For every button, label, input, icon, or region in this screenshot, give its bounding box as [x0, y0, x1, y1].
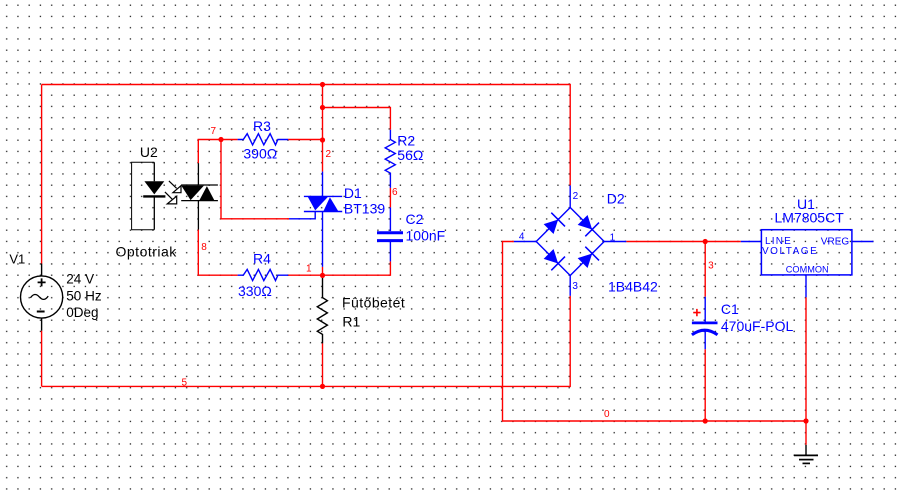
svg-text:BT139: BT139	[344, 200, 385, 216]
svg-text:V1: V1	[9, 251, 25, 266]
svg-text:C1: C1	[721, 301, 739, 317]
wire D1 bottom to node 1	[322, 267, 324, 275]
svg-text:56Ω: 56Ω	[397, 147, 423, 163]
resistor R2	[385, 130, 395, 188]
svg-text:2: 2	[573, 191, 579, 202]
junction net 3 C1	[703, 239, 708, 244]
polarity plus C1	[693, 309, 700, 316]
junction node 5	[320, 384, 325, 389]
svg-text:C2: C2	[406, 211, 424, 227]
capacitor C1	[692, 297, 718, 350]
ground	[794, 445, 818, 464]
svg-text:470uF-POL: 470uF-POL	[721, 318, 794, 334]
svg-text:4: 4	[519, 232, 525, 243]
diode D2 bottom-left	[542, 247, 565, 270]
junction 0 net ground	[803, 418, 808, 423]
wire node 1 to C2	[323, 261, 391, 275]
wire bottom rail node 5	[42, 296, 571, 387]
junction 0 net C1	[703, 418, 708, 423]
wire node 8 U2 to R4	[198, 230, 237, 276]
wire U1 common to ground	[805, 297, 807, 445]
svg-text:1B4B42: 1B4B42	[608, 278, 658, 294]
svg-text:Fûtőbetét: Fûtőbetét	[342, 295, 405, 311]
source V1	[20, 264, 62, 331]
svg-text:LM7805CT: LM7805CT	[775, 209, 845, 225]
diode D2 top-right	[576, 213, 599, 236]
wire node 7 to U2	[198, 140, 237, 164]
wire R2 branch	[323, 108, 391, 130]
junction node 7	[218, 137, 223, 142]
svg-text:VOLTAGE: VOLTAGE	[762, 246, 818, 257]
svg-text:1: 1	[306, 263, 312, 274]
svg-text:U2: U2	[140, 144, 158, 160]
wire left rail lower	[41, 331, 43, 387]
svg-text:D1: D1	[344, 185, 362, 201]
svg-text:3: 3	[572, 281, 578, 292]
svg-text:R3: R3	[253, 118, 271, 134]
svg-text:2: 2	[326, 149, 332, 160]
svg-text:0Deg: 0Deg	[66, 305, 98, 320]
svg-text:8: 8	[201, 242, 207, 253]
junction node 1	[320, 273, 325, 278]
wire R3 right to node 2	[288, 139, 322, 141]
diode D2 bottom-right	[576, 247, 599, 270]
svg-text:COMMON: COMMON	[786, 265, 829, 275]
resistor R3	[238, 134, 289, 145]
optotriac U2	[132, 162, 218, 229]
svg-text:24 V: 24 V	[66, 272, 94, 287]
svg-text:6: 6	[392, 187, 398, 198]
wire top rail node 2	[42, 85, 571, 186]
svg-text:3: 3	[708, 260, 714, 271]
svg-text:100nF: 100nF	[406, 227, 446, 243]
svg-text:7: 7	[211, 126, 217, 137]
diode D2 top-left	[542, 213, 565, 236]
svg-text:0: 0	[604, 409, 610, 420]
svg-text:R1: R1	[342, 314, 360, 330]
resistor R4	[238, 269, 289, 280]
svg-text:5: 5	[182, 378, 188, 389]
svg-text:R4: R4	[253, 250, 271, 266]
wire bridge pin4 to 0 net	[503, 242, 807, 422]
junction R3 node 2	[320, 137, 325, 142]
junction R2 branch	[320, 105, 325, 110]
wire node 7 to D1 gate	[221, 140, 289, 219]
wire net 6 R2 to C2	[389, 188, 391, 208]
wire left rail upper	[41, 85, 43, 264]
svg-text:VREG: VREG	[821, 236, 850, 247]
wire R1 bottom to node 5	[322, 343, 324, 386]
bridge rectifier D2	[514, 185, 626, 295]
svg-text:D2: D2	[607, 190, 625, 206]
junction node 2 top	[320, 82, 325, 87]
capacitor C2	[377, 207, 403, 261]
wire net 3 to C1	[704, 242, 706, 297]
svg-text:330Ω: 330Ω	[238, 283, 272, 299]
svg-text:50 Hz: 50 Hz	[66, 288, 102, 303]
svg-text:390Ω: 390Ω	[243, 146, 277, 162]
heating element resistor R1	[317, 278, 327, 344]
svg-text:Optotriak: Optotriak	[116, 244, 178, 260]
triac D1	[289, 172, 342, 267]
svg-text:1: 1	[610, 232, 616, 243]
voltage regulator U1	[741, 230, 874, 298]
wire main vertical node 2	[322, 85, 324, 172]
wire R4 right to node 1	[288, 274, 322, 276]
wire C1 bottom to 0 net	[704, 349, 706, 421]
wire bridge pin1 to U1	[626, 241, 741, 243]
